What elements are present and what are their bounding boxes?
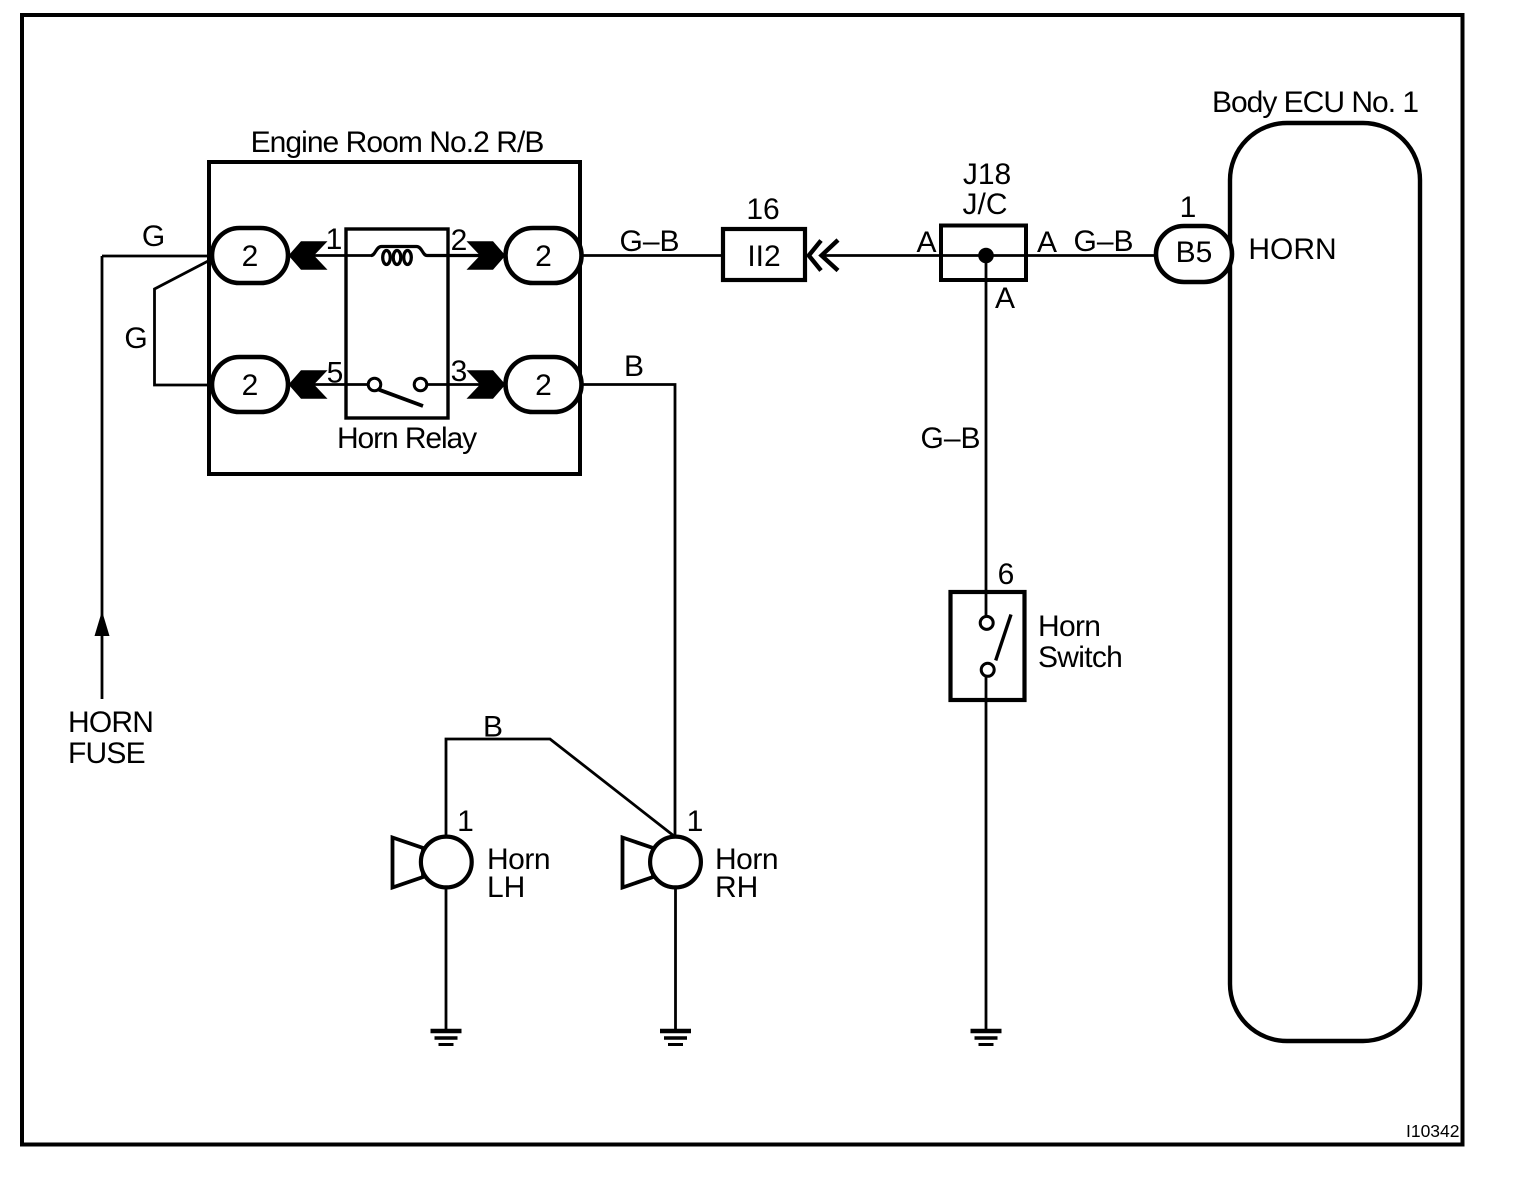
label HORN FUSE: [68, 706, 153, 770]
svg-text:FUSE: FUSE: [68, 737, 145, 770]
connector pin oval 2 bottom-right: [506, 357, 582, 412]
svg-text:1: 1: [457, 805, 474, 838]
junction connector J18 J/C: [941, 158, 1026, 280]
wire relay contact row left: [286, 383, 368, 386]
junction dot node A: [978, 248, 994, 264]
svg-text:Switch: Switch: [1038, 641, 1122, 674]
svg-text:Engine Room No.2 R/B: Engine Room No.2 R/B: [251, 126, 544, 159]
svg-text:1: 1: [687, 805, 704, 838]
svg-text:2: 2: [535, 240, 552, 273]
connector II2 pin 16: [723, 193, 805, 280]
svg-text:J/C: J/C: [963, 188, 1008, 221]
connector arrow right row2: [467, 370, 506, 398]
relay switch contact: [368, 378, 427, 406]
svg-text:G: G: [124, 322, 147, 355]
connector pin oval 2 top-right: [506, 228, 582, 283]
wire horn RH to ground: [674, 887, 677, 1030]
connector pin oval B5 pin 1: [1156, 191, 1232, 282]
svg-text:Horn: Horn: [1038, 610, 1100, 643]
svg-text:Horn Relay: Horn Relay: [337, 422, 477, 455]
svg-text:G: G: [142, 220, 165, 253]
connector arrow left row2: [289, 370, 328, 398]
fuse feed arrowhead: [95, 611, 110, 636]
svg-text:16: 16: [746, 193, 779, 226]
svg-text:II2: II2: [747, 240, 780, 273]
wire relay contact row right: [427, 383, 506, 386]
svg-text:B5: B5: [1176, 236, 1213, 269]
relay coil L1: [371, 247, 506, 265]
wire G from HORN FUSE to pin 2: [102, 255, 214, 258]
wire relay coil row: [286, 254, 372, 257]
ground for horn LH: [431, 1031, 462, 1045]
wire G jumper between relay pins: [155, 259, 215, 385]
connector pin oval 2 top-left: [212, 228, 288, 283]
wire G-B J/C down to horn switch: [985, 256, 988, 617]
wire horn LH to ground: [445, 887, 448, 1030]
relay box Horn Relay: [346, 229, 448, 418]
Body ECU No.1 block: [1212, 86, 1420, 1041]
svg-text:6: 6: [998, 558, 1015, 591]
svg-text:2: 2: [242, 369, 259, 402]
svg-text:1: 1: [1180, 191, 1197, 224]
svg-text:I10342: I10342: [1406, 1121, 1460, 1141]
svg-text:5: 5: [327, 357, 344, 390]
svg-text:A: A: [916, 226, 936, 259]
wire HORN FUSE riser: [101, 256, 104, 699]
svg-text:HORN: HORN: [68, 706, 153, 739]
svg-text:LH: LH: [487, 871, 525, 904]
ground for horn RH: [660, 1031, 691, 1045]
svg-text:G–B: G–B: [1073, 225, 1133, 258]
junction block Engine Room No.2 R/B: [209, 126, 580, 474]
wire G-B oval2 to connector II2: [581, 254, 723, 257]
horn switch SW pin 6: [951, 558, 1025, 700]
svg-text:B: B: [624, 350, 644, 383]
svg-text:G–B: G–B: [920, 422, 980, 455]
svg-text:2: 2: [451, 224, 468, 257]
horn RH: [623, 805, 704, 888]
wire horn switch to ground: [985, 677, 988, 1031]
svg-text:RH: RH: [715, 871, 758, 904]
ground for horn switch: [971, 1031, 1002, 1045]
svg-text:A: A: [995, 282, 1015, 315]
svg-text:2: 2: [535, 369, 552, 402]
wire B branch to horn LH: [446, 739, 674, 839]
svg-text:1: 1: [326, 223, 343, 256]
connector arrow right row1: [467, 241, 506, 269]
wire G-B chevron to B5 through J/C: [822, 254, 1156, 257]
svg-text:J18: J18: [963, 158, 1011, 191]
svg-text:2: 2: [242, 240, 259, 273]
horn LH: [393, 805, 474, 888]
svg-text:Body ECU No. 1: Body ECU No. 1: [1212, 86, 1418, 119]
wire B relay to horn RH: [581, 385, 675, 838]
svg-text:B: B: [483, 711, 503, 744]
svg-text:HORN: HORN: [1248, 233, 1336, 266]
svg-text:3: 3: [451, 355, 468, 388]
connector arrow left row1: [289, 241, 328, 269]
svg-text:A: A: [1037, 226, 1057, 259]
connector pin oval 2 bottom-left: [212, 357, 288, 412]
svg-text:G–B: G–B: [619, 225, 679, 258]
inline connector chevrons: [809, 240, 838, 271]
